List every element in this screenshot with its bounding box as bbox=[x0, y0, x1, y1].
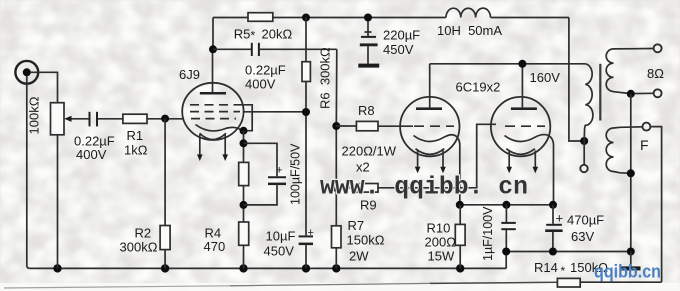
chassis ground bar bbox=[621, 252, 640, 271]
node: R2 bottom on bus bbox=[161, 264, 169, 272]
wire: plates to transformer primary top bbox=[430, 63, 586, 65]
capacitor C3 100uF/50V bypass bbox=[244, 143, 287, 205]
wire: R14 to F drop bbox=[580, 281, 661, 283]
svg-text:1µF/100V: 1µF/100V bbox=[481, 206, 495, 261]
svg-text:R14: R14 bbox=[534, 260, 558, 275]
terminal: speaker - bbox=[654, 89, 662, 97]
svg-text:R8: R8 bbox=[358, 103, 375, 118]
node: R3/R4 junction bbox=[240, 201, 248, 209]
svg-text:1kΩ: 1kΩ bbox=[124, 143, 148, 158]
svg-text:300kΩ: 300kΩ bbox=[120, 240, 158, 255]
wire: jack sleeve down to ground bus bbox=[27, 76, 30, 268]
svg-text:+: + bbox=[276, 165, 282, 177]
wire: cathode chain down bbox=[243, 131, 245, 163]
transformer T1 feedback winding bbox=[606, 128, 613, 172]
resistor R9 220R bbox=[356, 184, 378, 193]
wire: jack tip to volume pot top bbox=[30, 72, 58, 102]
node: R9 tap bbox=[332, 184, 340, 192]
V1 control grid dashes bbox=[191, 118, 236, 120]
svg-text:R2: R2 bbox=[135, 226, 152, 241]
svg-text:10H 50mA: 10H 50mA bbox=[437, 23, 502, 38]
svg-text:220Ω/1W: 220Ω/1W bbox=[342, 144, 397, 159]
node: plate/R5 left bbox=[209, 45, 217, 53]
wire: secondary common down bbox=[630, 94, 632, 252]
wire: bus drop to plate node bbox=[212, 18, 214, 50]
node: V2 cathode / R10 bbox=[456, 201, 464, 209]
resistor R5 20k bbox=[248, 13, 273, 22]
svg-text:100kΩ: 100kΩ bbox=[27, 96, 42, 134]
resistor R7 150k grid leak bbox=[332, 226, 342, 248]
svg-text:10µF: 10µF bbox=[266, 229, 296, 244]
potentiometer RP 100k body bbox=[51, 103, 65, 135]
wire: R8 left lead bbox=[336, 125, 356, 127]
V1 heater arc bbox=[200, 133, 227, 139]
wire: coupling node line down to R7 bbox=[335, 49, 338, 226]
node: feedback winding bottom bbox=[627, 169, 635, 177]
node: B+ / primary bottom bbox=[580, 137, 588, 145]
wire: R9 left lead bbox=[336, 187, 356, 189]
svg-text:6C19x2: 6C19x2 bbox=[456, 80, 501, 95]
wire: R10 leads bbox=[459, 205, 461, 269]
wire: pot bottom to bus bbox=[57, 135, 59, 269]
wire: C1 to R1 bbox=[98, 118, 123, 120]
wire: right ground rail bbox=[506, 251, 631, 253]
node: pot bottom on bus bbox=[53, 264, 61, 272]
transformer T1 primary winding bbox=[584, 64, 593, 141]
svg-text:R5: R5 bbox=[234, 27, 251, 42]
V1 heater leg left bbox=[197, 135, 203, 162]
svg-text:0.22µF: 0.22µF bbox=[245, 63, 286, 78]
capacitor C6 1uF/100V bbox=[501, 205, 516, 252]
tube V1 6J9 envelope bbox=[182, 83, 243, 140]
svg-text:*: * bbox=[251, 29, 256, 43]
svg-text:www. qqibb. cn: www. qqibb. cn bbox=[320, 173, 528, 202]
V1 plate bar bbox=[200, 92, 226, 95]
svg-text:R7: R7 bbox=[348, 218, 365, 233]
svg-text:R1: R1 bbox=[127, 128, 144, 143]
V2 cathode and lead down bbox=[414, 135, 460, 205]
svg-text:2W: 2W bbox=[349, 249, 369, 264]
node: R4 bottom on bus bbox=[239, 264, 247, 272]
svg-text:15W: 15W bbox=[428, 249, 455, 264]
node: R7 bottom on bus bbox=[332, 264, 340, 272]
resistor R3 cathode upper bbox=[239, 162, 249, 185]
svg-text:+: + bbox=[308, 227, 314, 239]
svg-text:160V: 160V bbox=[530, 70, 561, 85]
node: C6 top bbox=[502, 201, 510, 209]
wire: R1 to 6J9 grid bbox=[147, 118, 184, 120]
V1 heater leg right bbox=[222, 135, 228, 162]
node: R8 tap bbox=[332, 122, 340, 130]
wire: ground jog up bbox=[505, 252, 507, 269]
node: secondary bottom junction bbox=[627, 90, 635, 98]
V1 cathode bbox=[196, 125, 244, 131]
transformer T1 core bbox=[599, 64, 601, 121]
resistor R2 300k bbox=[160, 226, 170, 250]
wire: secondary bottom lead bbox=[614, 92, 654, 94]
wire: R9 to V3 grid bbox=[378, 124, 496, 188]
ground bus (bottom) bbox=[30, 267, 506, 269]
svg-text:6J9: 6J9 bbox=[179, 67, 200, 82]
V2 grid dashes bbox=[414, 125, 454, 127]
wire: R8 to V2 grid bbox=[378, 125, 413, 127]
wire: F terminal to R14 drop bbox=[650, 127, 661, 282]
pot wiper arrow bbox=[64, 116, 89, 122]
V2 plate bar bbox=[416, 107, 442, 110]
wire: R6 top lead bbox=[305, 18, 307, 62]
svg-text:450V: 450V bbox=[383, 42, 414, 57]
tube V2 6C19 #1 envelope bbox=[400, 97, 459, 156]
V3 heater leg right bbox=[533, 151, 539, 174]
node: 100uF top tap bbox=[240, 139, 248, 147]
wire: top bus right of choke bbox=[491, 17, 569, 19]
svg-text:150kΩ: 150kΩ bbox=[347, 233, 385, 248]
V3 plate lead bbox=[521, 64, 523, 108]
V3 heater arc bbox=[506, 149, 535, 155]
node: V3 plate on plate wire bbox=[518, 60, 526, 68]
node: screen node bbox=[302, 108, 310, 116]
svg-text:R10: R10 bbox=[427, 221, 451, 236]
node: C7 bottom bbox=[549, 248, 557, 256]
wire: choke output down to B+ node bbox=[569, 18, 584, 142]
svg-text:F: F bbox=[640, 137, 649, 153]
svg-text:220µF: 220µF bbox=[383, 28, 420, 43]
V1 screen grid dashes bbox=[190, 111, 240, 113]
node: 10uF bottom on bus bbox=[302, 264, 310, 272]
wire: cathode rail bbox=[460, 204, 553, 206]
capacitor C4 10uF/450V screen bypass bbox=[299, 227, 314, 268]
V1 plate lead up bbox=[212, 49, 214, 92]
svg-text:*: * bbox=[561, 264, 566, 278]
wire: feedback winding top to F terminal bbox=[614, 127, 643, 128]
capacitor C1 0.22uF input bbox=[90, 112, 98, 127]
wire: R2 to bus bbox=[164, 250, 166, 269]
V1 suppressor tie to cathode bbox=[244, 105, 253, 131]
wire: feedback winding bottom to common bbox=[614, 172, 631, 174]
node: V3 cathode / C7 top bbox=[549, 201, 557, 209]
resistor R1 1k bbox=[123, 114, 147, 123]
wire: R7 to bus bbox=[335, 248, 337, 269]
svg-text:R6 300kΩ: R6 300kΩ bbox=[318, 47, 333, 109]
node: grid node after R1 bbox=[161, 115, 169, 123]
node: rail right end bbox=[627, 248, 635, 256]
V2 heater arc bbox=[416, 149, 445, 155]
wire: feedback return line bbox=[4, 286, 230, 288]
wire: V1 screen to R6 node bbox=[244, 111, 306, 113]
wire: top B+ bus bbox=[213, 17, 446, 19]
V1 suppressor grid dashes bbox=[190, 104, 244, 106]
svg-text:400V: 400V bbox=[76, 147, 107, 162]
wire: R3 to R4 bbox=[243, 186, 245, 222]
inductor L1 choke 10H bbox=[446, 8, 491, 17]
svg-text:20kΩ: 20kΩ bbox=[262, 27, 293, 42]
V3 heater leg left bbox=[506, 151, 512, 174]
resistor R8 220R bbox=[356, 121, 378, 130]
terminal: B+ input bbox=[580, 165, 587, 172]
wire: B+ node to terminal bbox=[583, 141, 585, 165]
terminal: speaker + bbox=[654, 44, 662, 52]
wire: secondary top to speaker terminal bbox=[614, 48, 654, 50]
V2 heater leg right bbox=[440, 151, 446, 174]
svg-text:200Ω: 200Ω bbox=[425, 235, 457, 250]
resistor R14 150k feedback bbox=[557, 278, 580, 287]
input jack J1 bbox=[15, 61, 38, 84]
svg-text:470: 470 bbox=[204, 239, 226, 254]
capacitor C5 220uF/450V filter bbox=[358, 18, 379, 68]
V2 plate lead bbox=[429, 64, 431, 108]
node: jog top bbox=[502, 248, 510, 256]
node: C5 top on bus bbox=[364, 14, 372, 22]
capacitor C2 0.22uF plate coupling bbox=[213, 43, 337, 56]
V3 plate bar bbox=[511, 107, 537, 110]
resistor R6 300k bbox=[302, 62, 310, 82]
terminal: F feedback bbox=[642, 123, 650, 131]
resistor R4 470 bbox=[239, 222, 249, 245]
transformer T1 secondary 8 ohm winding bbox=[606, 49, 613, 92]
svg-text:400V: 400V bbox=[245, 77, 276, 92]
wire: R6 bottom to screen node and 10uF bbox=[305, 82, 307, 236]
svg-text:+: + bbox=[556, 211, 564, 226]
svg-text:470µF: 470µF bbox=[567, 213, 604, 228]
wire: grid node down to R2 bbox=[164, 119, 166, 226]
V2 heater leg left bbox=[415, 151, 421, 174]
tube V3 6C19 #2 envelope bbox=[491, 97, 550, 156]
svg-text:qqibb.cn: qqibb.cn bbox=[594, 261, 661, 282]
node: V1 cathode junction bbox=[240, 127, 248, 135]
svg-text:8Ω: 8Ω bbox=[647, 66, 664, 81]
svg-text:63V: 63V bbox=[571, 229, 594, 244]
wire: R4 to bus bbox=[243, 245, 245, 268]
V3 grid dashes bbox=[505, 125, 545, 127]
svg-text:450V: 450V bbox=[264, 244, 295, 259]
node: R6 top on bus bbox=[302, 14, 310, 22]
svg-text:100µF/50V: 100µF/50V bbox=[289, 143, 303, 205]
capacitor C7 470uF/63V bbox=[545, 205, 562, 252]
node: R10 bottom on bus bbox=[456, 264, 464, 272]
V3 cathode and lead down bbox=[505, 135, 554, 205]
resistor R10 200R cathode bbox=[455, 224, 465, 245]
